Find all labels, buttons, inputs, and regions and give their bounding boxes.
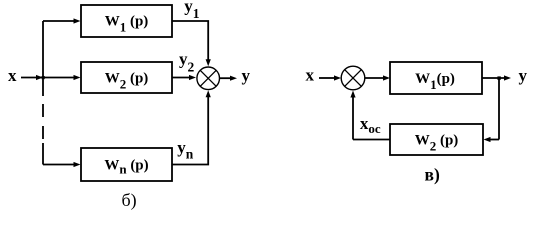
wire summer to W1 (right) [365, 77, 384, 79]
block W1(p) right [390, 62, 482, 94]
svg-text:в): в) [425, 165, 440, 185]
wire x to summer (right) [319, 77, 335, 79]
arrowhead into W2 [74, 75, 81, 80]
arrowhead into W1 (right) [383, 75, 390, 80]
wire branch vertical solid upper [42, 21, 44, 96]
svg-text:y: y [242, 66, 251, 85]
arrowhead into W1 [74, 18, 81, 23]
svg-text:x: x [8, 66, 17, 85]
summing junction (right) [341, 66, 365, 90]
arrowhead into summer bottom (right) [350, 91, 355, 98]
block Wn(p) [81, 148, 172, 181]
arrowhead into summer left [189, 75, 196, 80]
arrowhead into Wn [74, 162, 81, 167]
node branch junction [42, 76, 45, 79]
svg-text:б): б) [122, 190, 137, 211]
wire feedback up to summer [352, 96, 354, 140]
wire feedback vertical down [498, 78, 500, 140]
arrowhead into W2 (pointing left) [484, 137, 491, 142]
block W1(p) [81, 5, 172, 37]
wire x to junction [21, 77, 41, 79]
wire feedback to W2 right [489, 139, 499, 141]
wire branch to Wn [43, 164, 74, 166]
wire branch to W1 [43, 20, 74, 22]
node feedback tap junction [497, 76, 500, 79]
wire branch vertical dashed [42, 104, 44, 139]
wire W2 output left [353, 139, 390, 141]
wire branch vertical solid lower [42, 143, 44, 165]
wire yn from Wn to summer bottom [172, 97, 208, 165]
summing junction (left) [197, 67, 220, 90]
svg-text:x: x [306, 66, 315, 85]
block W2(p) right [390, 124, 483, 155]
arrowhead into summer top [206, 59, 211, 66]
wire W1 to output y (right) [482, 77, 506, 79]
arrowhead into junction [36, 75, 43, 80]
arrowhead output [230, 76, 237, 81]
wire y2 from W2 to summer left [172, 77, 190, 79]
wire y1 from W1 to summer top [172, 21, 208, 60]
svg-text:y: y [519, 66, 528, 85]
wire junction to W2 [43, 77, 74, 79]
block W2(p) [81, 62, 172, 93]
arrowhead into summer left (right) [334, 75, 341, 80]
arrowhead into summer bottom [206, 90, 211, 97]
arrowhead output (right) [504, 75, 511, 80]
wire summer to output y [220, 77, 232, 79]
